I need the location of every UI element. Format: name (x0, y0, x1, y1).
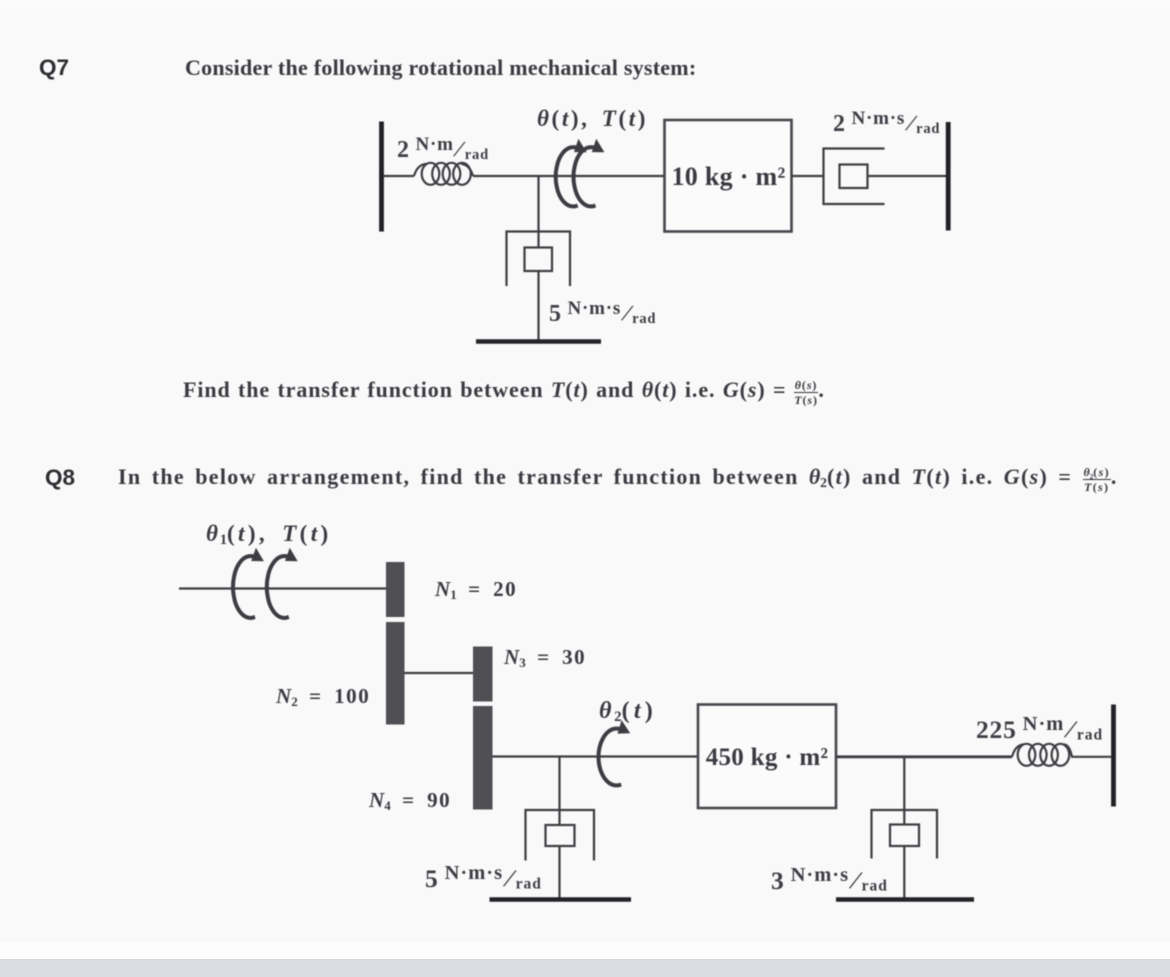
damper B4 cup (3 N·m·s/rad) (872, 810, 938, 859)
damper B3 rod to ground (558, 846, 560, 899)
damper B2 rod to wall (868, 175, 947, 177)
label theta(t),T(t) torque input Q7 (537, 106, 648, 132)
wire spring K2 to wall (1071, 756, 1111, 758)
gear N2 = 100 (386, 622, 405, 725)
value label damper B3 5 N·m·s/rad (425, 862, 542, 894)
node C junction to damper B4 (903, 757, 905, 825)
wall right (Q7 fixed support) (946, 122, 951, 231)
value label spring K1 2 N·m/rad (397, 134, 489, 164)
torque source T arrowhead 2 (285, 548, 298, 562)
wire input shaft to gear N1 (179, 587, 386, 589)
wire shaft: wall to spring K1 (383, 175, 414, 177)
node B junction to damper B3 (558, 757, 560, 826)
gear N1 = 20 (386, 562, 405, 617)
ground under damper B1 (476, 339, 601, 344)
value label damper B1 5 N·m·s/rad (549, 298, 656, 328)
label gear N3=30 (504, 645, 586, 670)
ground under damper B3 (490, 897, 632, 901)
torque source arrowhead 1 (574, 139, 587, 152)
torque source T arrowhead 1 (251, 548, 264, 562)
heading Q8 (45, 465, 75, 491)
spring K1 2 N·m/rad (414, 163, 473, 185)
torque source arc 2 (574, 147, 596, 206)
wire output shaft N4 to inertia J2 (493, 755, 699, 757)
torque source arc 1 (556, 147, 578, 206)
footer light strip (0, 943, 1170, 959)
footer gray band (0, 959, 1170, 977)
value label inertia J2 450 kg·m2 (698, 744, 836, 772)
damper B4 piston square (890, 825, 919, 847)
question line Q7 (183, 377, 825, 406)
value label inertia J1 10 kg·m2 (665, 162, 792, 192)
torque source arrowhead 2 (592, 139, 605, 152)
label theta2(t) output angle (599, 698, 657, 725)
heading Q7 (39, 55, 69, 81)
wall right (Q8 fixed support) (1111, 705, 1116, 807)
value label damper B4 3 N·m·s/rad (771, 864, 888, 896)
torque source T arc 2 (267, 556, 289, 618)
wire shaft: spring to inertia J1 (passes node A and torque source) (473, 175, 665, 177)
ground under damper B4 (836, 897, 974, 901)
wire shaft: inertia J1 to damper B2 (792, 175, 824, 177)
value label spring K2 225 N·m/rad (976, 713, 1103, 745)
problem statement Q8 (118, 464, 1118, 493)
damper B1 piston square (525, 248, 553, 272)
label gear N2=100 (276, 684, 370, 709)
wire countershaft N2 to N3 (405, 672, 474, 674)
wire shaft: inertia J2 to spring K2 (836, 755, 1012, 758)
inertia J2 box 450 kg·m2 (698, 705, 836, 809)
problem statement Q7 (185, 55, 696, 81)
spring K2 225 N·m/rad (1012, 744, 1072, 766)
damper B1 rod to ground (537, 271, 539, 341)
damper B2 piston square (840, 165, 868, 189)
value label damper B2 2 N·m·s/rad (833, 108, 940, 138)
label theta1(t),T(t) torque input Q8 (206, 521, 332, 547)
damper B4 rod to ground (903, 846, 905, 899)
torque source T arc 1 (Q8 input) (233, 556, 255, 618)
damper B3 cup (5 N·m·s/rad) (526, 810, 595, 861)
node A junction to damper B1 (537, 176, 539, 248)
torque arc theta2 (599, 729, 622, 786)
gear N3 = 30 (473, 647, 493, 702)
damper B3 piston square (546, 825, 575, 846)
wall left (Q7 fixed support) (379, 122, 384, 232)
gear N4 = 90 (473, 706, 493, 810)
torque arrowhead theta2 (618, 720, 631, 734)
damper B1 cup (5 N·m·s/rad) (507, 232, 571, 287)
label gear N4=90 (369, 788, 451, 813)
inertia J1 box 10 kg·m2 (665, 120, 792, 232)
damper B2 cup (2 N·m·s/rad) (824, 149, 885, 205)
label gear N1=20 (435, 577, 517, 602)
